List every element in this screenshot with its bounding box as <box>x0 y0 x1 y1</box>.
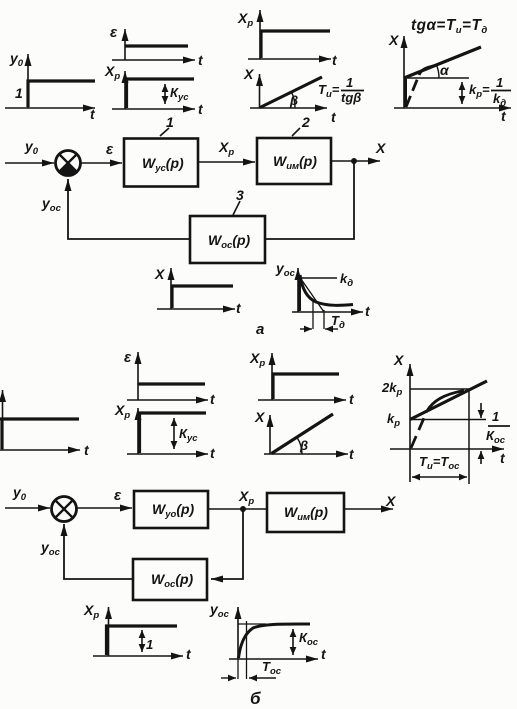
svg-text:t: t <box>332 52 338 68</box>
svg-text:X: X <box>385 493 397 509</box>
plot A7 X step: signal curve <box>172 286 233 308</box>
svg-text:б: б <box>250 689 261 708</box>
diagram a: block W_us(p) <box>124 139 198 187</box>
svg-text:Хр: Хр <box>114 402 130 421</box>
pointer line to block 1 <box>160 128 169 136</box>
svg-text:t: t <box>84 442 90 458</box>
svg-text:1: 1 <box>346 75 353 90</box>
plot B6 axes <box>390 364 504 449</box>
plot A7 X step: axes <box>157 268 235 309</box>
plot B8 Kos dimension arrow <box>292 629 294 655</box>
svg-text:ε: ε <box>114 487 122 504</box>
diagram b: summing junction <box>52 497 77 522</box>
plot B6 asymptote ramp <box>410 381 487 420</box>
svg-text:yос: yос <box>275 260 296 279</box>
svg-text:Хр: Хр <box>237 10 253 29</box>
plot A6 dashed response curve <box>406 75 419 107</box>
diagram a: wire W_us to W_im <box>198 161 255 163</box>
diagram a: feedback wire to summer <box>68 179 190 239</box>
svg-text:t: t <box>349 446 355 462</box>
svg-text:kр: kр <box>387 411 400 429</box>
svg-text:Wим(p): Wим(p) <box>284 504 328 523</box>
svg-text:t: t <box>210 391 216 407</box>
plot A5 ramp line <box>260 77 322 108</box>
plot B5 X ramp: axes <box>264 415 348 454</box>
plot B7 dimension arrow 1 <box>141 630 143 652</box>
svg-text:Кос: Кос <box>486 428 506 446</box>
svg-text:Wуо(p): Wуо(p) <box>152 501 195 520</box>
diagram a: feedback wire right <box>265 161 354 239</box>
plot B4 Xp step: axes <box>258 353 346 400</box>
plot A2 epsilon: signal line <box>125 44 188 47</box>
plot B2 epsilon: axes <box>127 352 208 400</box>
svg-text:X: X <box>375 140 387 156</box>
plot B6 kp level line <box>410 419 486 421</box>
plot B2 signal line <box>138 382 205 385</box>
plot B7 signal curve <box>107 626 178 655</box>
svg-text:Хр: Хр <box>249 350 265 369</box>
plot A6 axes <box>394 36 511 108</box>
diagram a: block W_im(p) <box>257 138 331 184</box>
svg-text:ε: ε <box>124 349 132 366</box>
plot B8 axis extension below <box>237 659 239 679</box>
svg-text:X: X <box>243 66 255 82</box>
svg-text:X: X <box>393 352 405 368</box>
plot A6 asymptote ramp <box>404 47 481 78</box>
plot B3 Xp step: axes <box>127 408 208 454</box>
plot B6 dashed response start <box>411 411 427 448</box>
svg-text:ε: ε <box>110 24 118 41</box>
svg-text:t: t <box>349 391 355 407</box>
svg-text:Ти=Тос: Ти=Тос <box>419 454 460 472</box>
svg-text:β: β <box>289 93 298 108</box>
diagram b: wire summer to W_uo <box>77 507 133 509</box>
formula Ti = 1/tg(beta) <box>318 75 364 105</box>
svg-text:Хр: Хр <box>83 602 99 621</box>
svg-text:Ти=: Ти= <box>318 82 340 100</box>
svg-text:ε: ε <box>106 141 114 158</box>
plot B3 Kus dimension arrow <box>173 418 175 449</box>
plot A5 beta angle arc <box>292 93 295 108</box>
plot B6 axis extension below <box>409 449 411 482</box>
svg-text:t: t <box>321 646 327 662</box>
svg-text:t: t <box>365 303 371 319</box>
svg-text:Wос(p): Wос(p) <box>208 232 251 251</box>
svg-text:yос: yос <box>209 601 230 620</box>
diagram b: input wire <box>5 507 50 509</box>
svg-text:а: а <box>256 321 264 338</box>
plot A8 tangent line <box>301 279 324 312</box>
diagram b: block W_uo(p) <box>134 491 208 528</box>
svg-text:yос: yос <box>41 195 62 214</box>
svg-text:Wос(p): Wос(p) <box>151 571 194 590</box>
svg-text:α: α <box>440 62 450 78</box>
svg-text:y0: y0 <box>9 50 24 69</box>
pointer line to block 3 <box>233 201 240 215</box>
plot B7 axes <box>93 607 183 656</box>
svg-text:t: t <box>500 450 506 466</box>
plot B1 signal curve <box>0 419 79 449</box>
svg-text:t: t <box>186 646 192 662</box>
svg-text:Хр: Хр <box>104 63 120 82</box>
plot A2 epsilon: axes <box>112 29 195 60</box>
plot A8 Td marker lines <box>313 299 324 329</box>
plot A6 alpha angle arc <box>437 65 440 78</box>
svg-text:2: 2 <box>301 114 310 130</box>
plot B6 construction vertical <box>468 389 470 484</box>
plot A3 Xp step: signal curve <box>127 79 195 108</box>
plot A3 Kus dimension arrow <box>164 84 166 104</box>
plot B1 step (clipped): axes <box>0 390 80 450</box>
plot B8 saturating curve <box>239 624 311 658</box>
svg-text:1: 1 <box>496 75 503 90</box>
svg-text:1: 1 <box>492 409 499 424</box>
diagram b: output wire <box>344 508 393 510</box>
svg-text:Кос: Кос <box>299 630 319 648</box>
svg-text:Хр: Хр <box>238 488 254 507</box>
svg-text:tgβ: tgβ <box>341 90 361 105</box>
diagram a: wire summer to W_us <box>80 162 122 164</box>
svg-text:kд: kд <box>340 271 353 289</box>
pointer line to block 2 <box>292 128 300 136</box>
plot A3 Xp step: axes <box>112 71 195 109</box>
diagram b: block W_im(p) <box>267 493 344 532</box>
diagram b: wire W_uo to W_im <box>208 508 267 510</box>
svg-text:X: X <box>254 409 266 425</box>
svg-text:t: t <box>198 52 204 68</box>
svg-text:t: t <box>501 108 507 124</box>
svg-text:yос: yос <box>40 539 61 558</box>
plot B5 ramp line <box>272 414 334 454</box>
plot B4 signal curve <box>273 374 339 399</box>
plot B8 asymptote level line <box>238 623 266 625</box>
diagram a: input wire <box>5 162 54 164</box>
plot A6 kp level line <box>404 77 469 79</box>
svg-text:Wус(p): Wус(p) <box>142 155 184 174</box>
svg-text:Кус: Кус <box>170 85 189 103</box>
diagram a: block W_os(p) <box>190 216 265 263</box>
plot A8 kd level line <box>299 277 337 279</box>
svg-text:1: 1 <box>166 114 174 130</box>
plot A6 kp dimension arrow <box>461 82 463 104</box>
svg-text:kр=: kр= <box>469 82 490 100</box>
svg-text:β: β <box>299 438 308 453</box>
svg-text:Wим(p): Wим(p) <box>273 153 317 172</box>
svg-text:t: t <box>210 445 216 461</box>
plot B5 beta angle arc <box>297 438 302 454</box>
plot A8 axes <box>292 268 363 312</box>
formula kp = 1/kd <box>469 75 511 109</box>
svg-text:1: 1 <box>146 637 153 652</box>
plot B8 axes <box>229 607 318 659</box>
plot B6 1/Kos dimension arrows <box>480 403 482 464</box>
plot A5 X ramp: axes <box>250 74 327 108</box>
plot B3 signal curve <box>140 413 207 453</box>
plot A4 Xp step: axes <box>248 10 331 59</box>
svg-text:t: t <box>90 106 96 122</box>
svg-text:Тос: Тос <box>262 659 282 677</box>
diagram a: summing junction <box>56 151 81 176</box>
svg-text:3: 3 <box>236 187 244 203</box>
diagram b: block W_os(p) <box>133 559 207 600</box>
svg-text:y0: y0 <box>24 138 39 157</box>
svg-text:X: X <box>154 266 166 282</box>
plot A1 y0 step: axes <box>5 54 95 108</box>
diagram a: output wire <box>331 160 380 162</box>
svg-text:1: 1 <box>15 85 23 101</box>
svg-text:kд: kд <box>493 91 506 109</box>
plot B8 Tos marker line <box>246 621 248 679</box>
formula 1/Kos <box>486 409 510 446</box>
svg-text:t: t <box>198 101 204 117</box>
svg-text:tgα=Ти=Тд: tgα=Ти=Тд <box>411 17 488 36</box>
svg-text:Хр: Хр <box>218 139 234 158</box>
plot B6 Ti=Tos dimension arrow <box>412 476 467 478</box>
plot B8 Tos dimension arrows <box>221 677 276 679</box>
svg-text:t: t <box>236 300 242 316</box>
plot A4 Xp step: signal curve <box>261 31 330 58</box>
plot A1 y0 step: signal curve <box>28 81 95 107</box>
plot A8 decay curve <box>300 275 354 311</box>
diagram b: feedback wire from node <box>211 509 243 579</box>
svg-text:t: t <box>331 109 337 125</box>
plot B6 response curve <box>427 391 464 412</box>
svg-text:2kр: 2kр <box>381 380 402 398</box>
diagram b: feedback wire to summer <box>64 524 133 579</box>
diagram b: branch node <box>240 506 246 512</box>
svg-text:Кус: Кус <box>179 426 198 444</box>
plot A8 Td dimension arrows <box>300 328 338 330</box>
diagram a: branch node <box>351 158 357 164</box>
plot B6 2kp level line <box>410 388 470 390</box>
svg-text:y0: y0 <box>12 484 27 503</box>
svg-text:X: X <box>388 32 400 48</box>
